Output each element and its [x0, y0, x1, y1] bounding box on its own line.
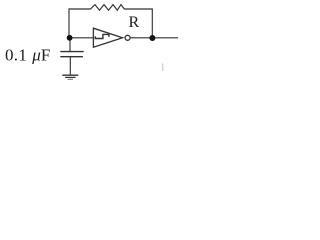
- svg-text:μF: μF: [31, 45, 50, 64]
- svg-text:R: R: [129, 14, 140, 31]
- svg-text:0.1: 0.1: [5, 45, 27, 64]
